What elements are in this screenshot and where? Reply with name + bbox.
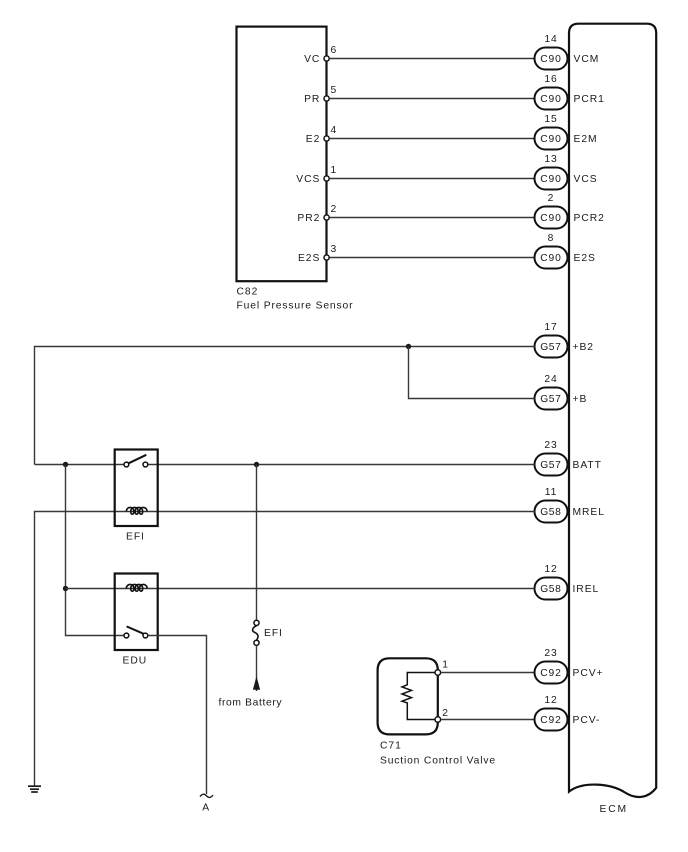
wire IREL row bbox=[66, 588, 535, 590]
connector C92 pin 12 bbox=[535, 709, 568, 731]
svg-text:C90: C90 bbox=[540, 134, 562, 145]
wire VC to VCM bbox=[330, 58, 535, 60]
svg-text:C90: C90 bbox=[540, 174, 562, 185]
pin circle 1 on C82 bbox=[324, 176, 329, 181]
svg-text:23: 23 bbox=[544, 648, 557, 659]
svg-text:+B2: +B2 bbox=[573, 342, 594, 353]
svg-text:E2M: E2M bbox=[574, 134, 598, 145]
connector G57 pin 17 bbox=[535, 336, 568, 358]
pin circle 3 on C82 bbox=[324, 255, 329, 260]
svg-text:IREL: IREL bbox=[573, 584, 600, 595]
svg-text:VCS: VCS bbox=[296, 174, 320, 185]
svg-text:E2S: E2S bbox=[298, 253, 320, 264]
svg-text:Suction Control Valve: Suction Control Valve bbox=[380, 755, 496, 766]
svg-text:from Battery: from Battery bbox=[219, 698, 283, 709]
connector C92 pin 23 bbox=[535, 662, 568, 684]
wire E2 to E2M bbox=[330, 138, 535, 140]
fuse EFI element bbox=[253, 626, 258, 641]
svg-text:12: 12 bbox=[544, 564, 557, 575]
svg-text:E2: E2 bbox=[306, 134, 321, 145]
svg-text:13: 13 bbox=[544, 154, 557, 165]
svg-text:C90: C90 bbox=[540, 213, 562, 224]
wire PCV+ bbox=[441, 672, 535, 674]
ground symbol bbox=[28, 786, 41, 792]
svg-text:A: A bbox=[202, 803, 210, 814]
wire fuse to battery arrow bbox=[256, 645, 258, 691]
svg-text:11: 11 bbox=[545, 487, 558, 498]
wire VCS to VCS bbox=[330, 178, 535, 180]
svg-text:C92: C92 bbox=[540, 715, 562, 726]
svg-text:+B: +B bbox=[573, 394, 588, 405]
resistor inside C71 bbox=[402, 673, 438, 720]
svg-text:VCM: VCM bbox=[574, 54, 600, 65]
svg-text:C90: C90 bbox=[540, 94, 562, 105]
svg-text:EDU: EDU bbox=[123, 655, 148, 666]
svg-text:ECM: ECM bbox=[600, 804, 628, 815]
junction node BATT / vertical B bbox=[63, 462, 68, 467]
svg-text:PCR2: PCR2 bbox=[574, 213, 605, 224]
svg-text:C82: C82 bbox=[237, 287, 259, 298]
svg-text:3: 3 bbox=[331, 244, 338, 255]
svg-text:C90: C90 bbox=[540, 54, 562, 65]
connector C90 pin 2 bbox=[535, 207, 568, 229]
junction node IREL tap bbox=[63, 586, 68, 591]
valve C71 body bbox=[378, 658, 438, 734]
connector C90 pin 16 bbox=[535, 88, 568, 110]
svg-text:G58: G58 bbox=[540, 507, 562, 518]
svg-text:VC: VC bbox=[304, 54, 320, 65]
relay EDU switch arm bbox=[127, 626, 144, 633]
svg-text:23: 23 bbox=[544, 440, 557, 451]
relay EDU switch contact right bbox=[143, 633, 148, 638]
junction node +B2/+B bbox=[406, 344, 411, 349]
connector G57 pin 24 bbox=[535, 388, 568, 410]
svg-text:C92: C92 bbox=[540, 668, 562, 679]
svg-text:PCV+: PCV+ bbox=[573, 668, 604, 679]
svg-text:5: 5 bbox=[331, 85, 338, 96]
relay EFI box bbox=[115, 450, 158, 527]
connector G58 pin 11 bbox=[535, 501, 568, 523]
wire vertical B down to EDU switch bbox=[66, 465, 125, 636]
svg-text:14: 14 bbox=[544, 34, 557, 45]
connector G57 pin 23 bbox=[535, 454, 568, 476]
relay EDU coil bbox=[126, 584, 147, 591]
svg-text:16: 16 bbox=[544, 74, 557, 85]
svg-text:6: 6 bbox=[331, 45, 338, 56]
wire BATT junction down to EFI fuse bbox=[256, 465, 258, 621]
wire +B2 from left riser to G57 bbox=[35, 347, 535, 465]
svg-text:C71: C71 bbox=[380, 741, 402, 752]
pin circle 6 on C82 bbox=[324, 56, 329, 61]
wire BATT row left segment bbox=[35, 464, 125, 466]
connector C90 pin 14 bbox=[535, 48, 568, 70]
connector C82 Fuel Pressure Sensor box bbox=[237, 27, 327, 282]
svg-text:4: 4 bbox=[331, 125, 338, 136]
svg-text:17: 17 bbox=[544, 322, 557, 333]
svg-text:Fuel Pressure Sensor: Fuel Pressure Sensor bbox=[237, 300, 354, 311]
ECM box bbox=[569, 24, 656, 797]
node A break squiggle bbox=[200, 794, 213, 797]
svg-text:2: 2 bbox=[548, 193, 555, 204]
connector C90 pin 13 bbox=[535, 168, 568, 190]
fuse EFI top terminal bbox=[254, 620, 259, 625]
connector G58 pin 12 bbox=[535, 578, 568, 600]
svg-text:C90: C90 bbox=[540, 253, 562, 264]
svg-text:G58: G58 bbox=[540, 584, 562, 595]
relay EFI switch arm bbox=[129, 455, 147, 463]
svg-text:EFI: EFI bbox=[264, 628, 283, 639]
relay EDU box bbox=[115, 574, 158, 651]
svg-text:VCS: VCS bbox=[574, 174, 598, 185]
from-battery arrowhead bbox=[253, 676, 260, 690]
svg-text:8: 8 bbox=[548, 233, 555, 244]
svg-text:PCV-: PCV- bbox=[573, 715, 601, 726]
svg-text:G57: G57 bbox=[540, 342, 562, 353]
svg-text:PR2: PR2 bbox=[297, 213, 320, 224]
pin circle 4 on C82 bbox=[324, 136, 329, 141]
relay EDU switch contact left bbox=[124, 633, 129, 638]
svg-text:PCR1: PCR1 bbox=[574, 94, 605, 105]
svg-text:24: 24 bbox=[544, 374, 557, 385]
svg-text:EFI: EFI bbox=[126, 532, 145, 543]
wire +B branch bbox=[409, 347, 535, 399]
svg-text:1: 1 bbox=[442, 659, 449, 670]
svg-text:BATT: BATT bbox=[573, 460, 602, 471]
svg-text:15: 15 bbox=[544, 114, 557, 125]
junction node EFI fuse tap bbox=[254, 462, 259, 467]
svg-text:1: 1 bbox=[331, 165, 338, 176]
wire EDU switch to node A bbox=[148, 636, 207, 795]
valve pin 2 circle bbox=[435, 717, 441, 723]
svg-text:PR: PR bbox=[304, 94, 320, 105]
wire PR2 to PCR2 bbox=[330, 217, 535, 219]
svg-text:2: 2 bbox=[442, 708, 449, 719]
wire BATT row right segment bbox=[148, 464, 535, 466]
svg-text:2: 2 bbox=[331, 204, 338, 215]
pin circle 2 on C82 bbox=[324, 215, 329, 220]
wire E2S to E2S bbox=[330, 257, 535, 259]
connector C90 pin 8 bbox=[535, 247, 568, 269]
wire MREL row and left riser to ground bbox=[35, 512, 535, 786]
wire PCV- bbox=[441, 719, 535, 721]
wire PR to PCR1 bbox=[330, 98, 535, 100]
relay EFI switch contact right bbox=[143, 462, 148, 467]
svg-text:G57: G57 bbox=[540, 394, 562, 405]
pin circle 5 on C82 bbox=[324, 96, 329, 101]
connector C90 pin 15 bbox=[535, 128, 568, 150]
fuse EFI bottom terminal bbox=[254, 640, 259, 645]
valve pin 1 circle bbox=[435, 670, 441, 676]
relay EFI switch contact left bbox=[124, 462, 129, 467]
svg-text:G57: G57 bbox=[540, 460, 562, 471]
svg-text:MREL: MREL bbox=[573, 507, 605, 518]
svg-text:12: 12 bbox=[544, 695, 557, 706]
relay EFI coil bbox=[126, 507, 147, 514]
svg-text:E2S: E2S bbox=[574, 253, 596, 264]
